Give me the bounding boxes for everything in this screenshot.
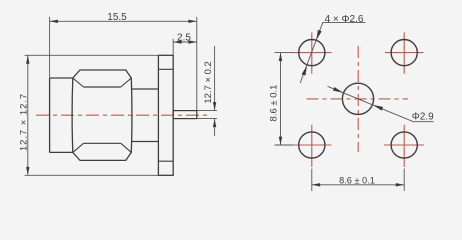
arrow 12.7 bottom	[26, 167, 29, 175]
hex flat line lower	[84, 142, 121, 144]
hole bottom-right	[391, 132, 417, 158]
svg-text:12.7 × 0.2: 12.7 × 0.2	[203, 61, 214, 104]
dim 15.5 / 2.5 extension right	[196, 17, 198, 110]
dim 2.5 extension left	[172, 39, 174, 55]
dim 8.6 vertical line	[280, 53, 282, 145]
dim 12.7x12.7 line	[27, 55, 29, 175]
dim 12.7x12.7 extensions	[25, 55, 159, 175]
svg-text:8.6 ± 0.1: 8.6 ± 0.1	[339, 176, 375, 186]
hole top-left	[299, 40, 325, 66]
red cross hole top-left	[292, 32, 332, 73]
arrow dim8.6v bottom	[279, 137, 282, 145]
arrow leader 2.6 lower	[302, 66, 307, 76]
hole top-right	[391, 40, 417, 66]
centerline left view	[36, 114, 209, 116]
hole bottom-left	[299, 132, 325, 158]
arrows right view	[279, 30, 404, 187]
dim 8.6 vertical extensions	[275, 53, 294, 145]
dim 12.7x0.2 leader lines	[214, 46, 216, 136]
svg-text:4 × Φ2.6: 4 × Φ2.6	[325, 14, 364, 25]
leader 4xPhi2.6	[300, 23, 365, 83]
red cross hole top-right	[385, 32, 424, 73]
body cylinder	[131, 89, 158, 142]
red cross hole bottom-right	[384, 125, 424, 167]
front cylinder	[50, 78, 73, 152]
red cross hole bottom-left	[292, 125, 332, 167]
dim 12.7x0.2 extensions	[197, 111, 217, 119]
arrow leader 2.9 left	[333, 87, 343, 93]
svg-text:15.5: 15.5	[107, 12, 127, 23]
svg-text:2.5: 2.5	[177, 32, 191, 43]
hex flat line upper	[84, 86, 121, 88]
center hole	[342, 83, 373, 114]
center hole centerline vertical	[357, 46, 359, 152]
flange chamfer lines	[158, 69, 173, 161]
arrow 12.7 top	[26, 55, 29, 63]
arrows left view	[26, 20, 216, 176]
arrow 15.5 right	[188, 20, 196, 23]
svg-text:8.6 ± 0.1: 8.6 ± 0.1	[269, 85, 280, 122]
arrow dim8.6h left	[312, 183, 320, 186]
dim texts left view	[18, 12, 214, 151]
hex nut outline	[72, 70, 132, 160]
hex corner facets	[73, 78, 132, 152]
arrow dim8.6v top	[279, 53, 282, 61]
flange	[158, 55, 173, 175]
dim 2.5 line	[173, 41, 197, 43]
arrow pin bottom	[213, 119, 216, 127]
dim 8.6 bottom extensions	[312, 169, 404, 192]
dim texts right view	[269, 14, 434, 186]
arrow 2.5 left	[173, 40, 181, 43]
arrow 2.5 right	[188, 40, 196, 43]
dim 15.5 extension left	[49, 17, 51, 78]
svg-text:Φ2.9: Φ2.9	[412, 111, 434, 122]
dim 15.5 line	[50, 20, 197, 22]
dim 8.6 bottom line	[312, 184, 404, 186]
arrow leader 2.6 upper	[316, 30, 321, 40]
center hole centerline horizontal	[307, 98, 409, 100]
arrow pin top	[213, 102, 216, 110]
arrow leader 2.9 right	[373, 105, 383, 111]
svg-text:12.7 × 12.7: 12.7 × 12.7	[18, 93, 29, 151]
leader Phi2.9	[328, 86, 434, 121]
arrow 15.5 left	[50, 20, 58, 23]
rear pin block	[173, 111, 197, 119]
arrow dim8.6h right	[396, 183, 404, 186]
